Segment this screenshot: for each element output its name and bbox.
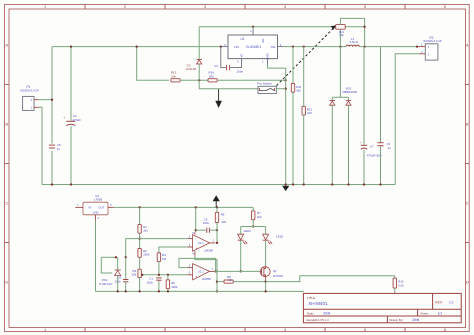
svg-text:6: 6 bbox=[444, 5, 446, 9]
svg-text:1M: 1M bbox=[162, 257, 167, 261]
svg-text:3: 3 bbox=[204, 5, 206, 9]
svg-text:C: C bbox=[5, 201, 8, 205]
svg-text:REV:: REV: bbox=[435, 301, 442, 305]
svg-text:5: 5 bbox=[364, 328, 366, 332]
svg-text:2k2: 2k2 bbox=[296, 89, 301, 93]
svg-text:0.05: 0.05 bbox=[398, 284, 404, 288]
svg-text:VC: VC bbox=[239, 54, 243, 58]
svg-text:100n: 100n bbox=[147, 280, 154, 284]
svg-text:EasyEDA V5.1.3: EasyEDA V5.1.3 bbox=[307, 318, 330, 322]
svg-text:L7805: L7805 bbox=[94, 198, 103, 202]
svg-text:GND: GND bbox=[93, 210, 99, 214]
svg-text:Drawn By:: Drawn By: bbox=[389, 318, 403, 322]
svg-text:B: B bbox=[466, 122, 469, 126]
svg-text:-: - bbox=[195, 237, 196, 241]
svg-text:10k: 10k bbox=[339, 33, 344, 37]
svg-text:1N4148: 1N4148 bbox=[186, 67, 197, 71]
svg-text:-: - bbox=[195, 266, 196, 270]
svg-text:P1: P1 bbox=[27, 85, 31, 89]
svg-text:3: 3 bbox=[204, 328, 206, 332]
svg-text:C4: C4 bbox=[214, 64, 218, 68]
svg-text:1/1: 1/1 bbox=[438, 311, 443, 315]
svg-text:4: 4 bbox=[284, 5, 286, 9]
svg-text:A: A bbox=[466, 43, 469, 47]
svg-text:120k: 120k bbox=[171, 285, 178, 289]
svg-text:VIN: VIN bbox=[234, 45, 239, 49]
svg-text:1u: 1u bbox=[57, 147, 61, 151]
svg-text:10k: 10k bbox=[132, 273, 137, 277]
svg-text:2: 2 bbox=[124, 328, 126, 332]
svg-text:+: + bbox=[63, 116, 65, 120]
svg-text:Sheet:: Sheet: bbox=[420, 311, 429, 315]
svg-text:5: 5 bbox=[364, 5, 366, 9]
svg-text:20k: 20k bbox=[171, 74, 176, 78]
svg-text:IN: IN bbox=[89, 206, 92, 210]
svg-text:220k: 220k bbox=[143, 253, 150, 257]
svg-text:U2.1: U2.1 bbox=[198, 241, 204, 245]
svg-text:XL4016E1: XL4016E1 bbox=[246, 45, 262, 49]
svg-text:EN: EN bbox=[261, 39, 265, 43]
svg-text:Zibbi: Zibbi bbox=[323, 311, 330, 315]
svg-text:+: + bbox=[195, 246, 197, 250]
svg-text:+: + bbox=[360, 141, 362, 145]
svg-text:430: 430 bbox=[307, 111, 312, 115]
svg-text:C: C bbox=[466, 201, 469, 205]
svg-text:1: 1 bbox=[44, 5, 46, 9]
svg-text:D: D bbox=[5, 280, 8, 284]
svg-text:OUT: OUT bbox=[98, 206, 104, 210]
svg-text:100: 100 bbox=[221, 220, 226, 224]
svg-text:U1: U1 bbox=[240, 37, 244, 41]
svg-text:Q1: Q1 bbox=[273, 269, 277, 273]
svg-text:470uF: 470uF bbox=[73, 118, 82, 122]
svg-text:+: + bbox=[195, 275, 197, 279]
svg-text:Zibbi: Zibbi bbox=[412, 318, 419, 322]
svg-text:LED2: LED2 bbox=[244, 229, 252, 233]
svg-text:TITLE:: TITLE: bbox=[307, 296, 316, 300]
svg-text:C7: C7 bbox=[370, 145, 374, 149]
svg-text:MBRF2060: MBRF2060 bbox=[343, 90, 358, 94]
svg-text:LM358: LM358 bbox=[204, 248, 213, 252]
svg-text:1.0: 1.0 bbox=[449, 301, 454, 305]
svg-text:2: 2 bbox=[124, 5, 126, 9]
svg-text:Pot Switch: Pot Switch bbox=[257, 81, 272, 85]
svg-text:100n: 100n bbox=[203, 221, 210, 225]
svg-text:D: D bbox=[466, 280, 469, 284]
svg-text:GND: GND bbox=[265, 53, 269, 59]
svg-text:2N7002: 2N7002 bbox=[273, 274, 284, 278]
svg-text:1u: 1u bbox=[387, 146, 391, 150]
svg-text:WJ300V-5.0-2P: WJ300V-5.0-2P bbox=[423, 39, 441, 43]
svg-text:B: B bbox=[6, 122, 9, 126]
svg-text:SW: SW bbox=[271, 45, 276, 49]
svg-text:XH-M401: XH-M401 bbox=[308, 301, 328, 306]
svg-text:A: A bbox=[6, 43, 9, 47]
svg-text:0.5mH: 0.5mH bbox=[350, 40, 358, 44]
svg-text:1: 1 bbox=[44, 328, 46, 332]
svg-text:2k2: 2k2 bbox=[143, 229, 148, 233]
svg-text:TL431CLP: TL431CLP bbox=[99, 282, 113, 286]
svg-text:WJ300V-5.0-2P: WJ300V-5.0-2P bbox=[20, 89, 38, 93]
svg-text:20k: 20k bbox=[209, 74, 214, 78]
svg-text:470uF+50V: 470uF+50V bbox=[367, 154, 382, 158]
svg-text:2k2: 2k2 bbox=[257, 215, 262, 219]
svg-text:4: 4 bbox=[284, 328, 286, 332]
svg-text:LM358: LM358 bbox=[202, 277, 211, 281]
svg-text:R6: R6 bbox=[221, 212, 225, 216]
svg-text:LED1: LED1 bbox=[276, 235, 284, 239]
svg-text:6: 6 bbox=[444, 328, 446, 332]
svg-text:Date:: Date: bbox=[307, 311, 314, 315]
svg-text:U2.2: U2.2 bbox=[198, 270, 204, 274]
svg-text:100n: 100n bbox=[237, 70, 244, 74]
